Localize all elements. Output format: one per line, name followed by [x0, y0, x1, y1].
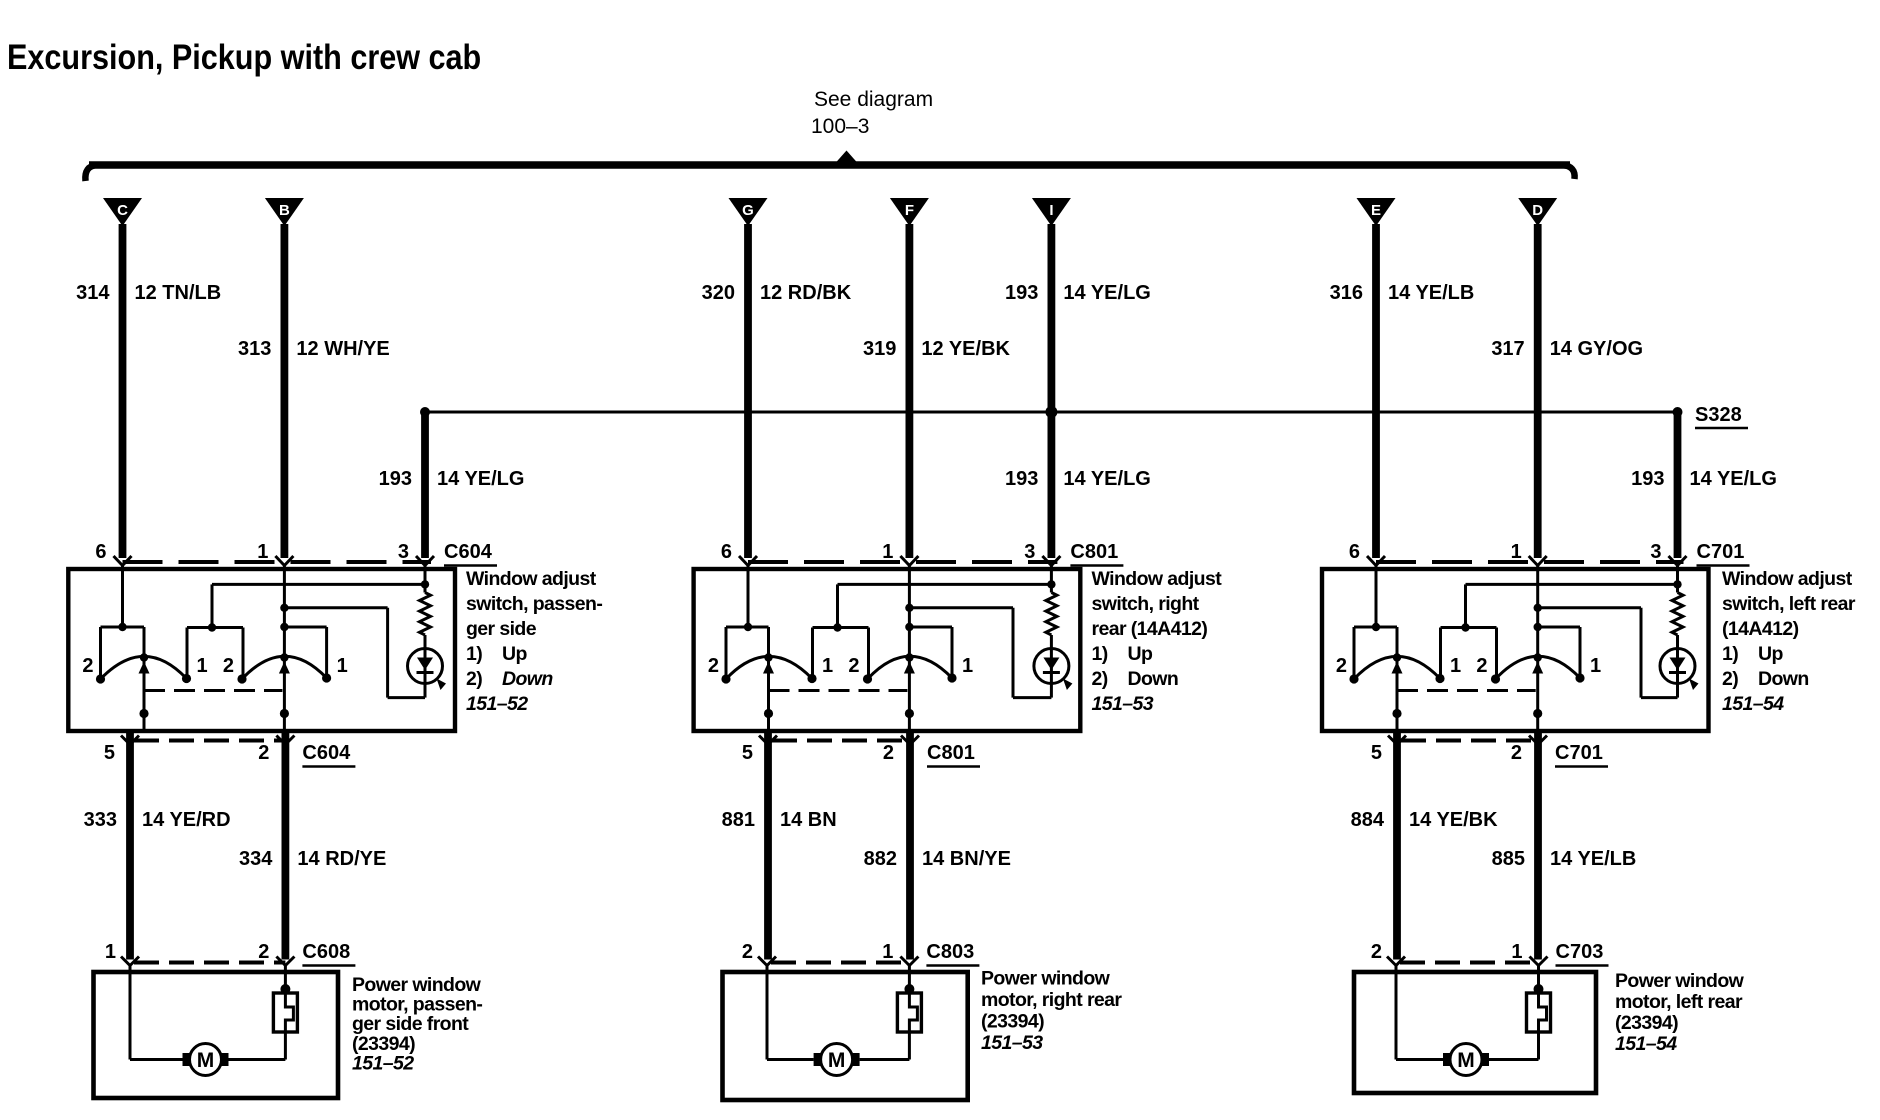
svg-text:1): 1) [1092, 643, 1108, 665]
node resistor feed junction [1673, 580, 1681, 588]
svg-text:C701: C701 [1555, 742, 1603, 764]
svg-text:12 TN/LB: 12 TN/LB [135, 282, 222, 304]
svg-text:6: 6 [721, 541, 732, 563]
power window motor box (right rear) [723, 972, 968, 1100]
wire motor to circuit breaker (right rear) [860, 1058, 910, 1061]
node resistor feed junction [421, 580, 429, 588]
node arc2 apex junction [1534, 653, 1542, 661]
svg-text:14 YE/BK: 14 YE/BK [1409, 809, 1498, 831]
svg-text:14 YE/LB: 14 YE/LB [1550, 848, 1636, 870]
connector C803 left pin symbol [758, 957, 767, 966]
svg-text:14 BN/YE: 14 BN/YE [922, 848, 1011, 870]
contact dot 2 (switch1 left rear) [1349, 674, 1358, 683]
svg-text:314: 314 [76, 282, 110, 304]
wire pin1 through switch to pin 2 (right rear) [908, 566, 911, 732]
switch2 feed bracket from pin1 (passenger side) [284, 626, 326, 629]
motor M (passenger side) [183, 1053, 191, 1066]
svg-text:Excursion, Pickup with crew ca: Excursion, Pickup with crew cab [7, 38, 481, 78]
wire pin6 feed inside switch (right rear) [747, 566, 750, 628]
wire pin1 through switch to pin 2 (passenger side) [283, 566, 286, 732]
LED arrow [1689, 679, 1699, 691]
connector triangle G [729, 198, 768, 226]
resistor, illumination (passenger side) [420, 593, 431, 636]
svg-text:rear (14A412): rear (14A412) [1092, 618, 1208, 640]
switch2 wiper arrow (left rear) [1532, 662, 1543, 674]
connector C801 pin 2 symbol [901, 736, 910, 745]
svg-text:14 YE/LG: 14 YE/LG [437, 468, 524, 490]
svg-text:151–52: 151–52 [466, 693, 528, 715]
svg-text:884: 884 [1351, 809, 1385, 831]
svg-text:151–52: 151–52 [352, 1052, 414, 1074]
LED arrow [1063, 679, 1073, 691]
switch2 feed bracket from pin1 (right rear) [909, 626, 952, 629]
wire circuit 319 from connector F [906, 224, 914, 558]
node splice dot on wire I [1045, 406, 1057, 418]
svg-text:S328: S328 [1695, 404, 1742, 426]
switch2 wiper arrow (right rear) [904, 662, 915, 674]
svg-text:881: 881 [722, 809, 755, 831]
switch1 wiper arc (left rear) [1354, 656, 1440, 679]
contact dot 1 (switch1 passenger side) [182, 674, 191, 683]
wire pin3 to resistor (passenger side) [424, 566, 427, 593]
svg-text:Power window: Power window [1615, 970, 1745, 992]
svg-text:motor, right rear: motor, right rear [981, 989, 1122, 1011]
node lamp-return junction on pin1 wire [280, 604, 288, 612]
window adjust switch box (passenger side) [68, 569, 455, 731]
svg-text:6: 6 [95, 541, 106, 563]
svg-text:317: 317 [1491, 338, 1524, 360]
svg-text:(14A412): (14A412) [1722, 618, 1799, 640]
wire pin6 feed inside switch (left rear) [1375, 566, 1378, 628]
contact dot 2 (switch2 left rear) [1491, 674, 1500, 683]
svg-text:M: M [197, 1049, 215, 1072]
node arc1 apex junction [764, 653, 772, 661]
contact dot 2 (switch2 passenger side) [237, 674, 246, 683]
svg-text:5: 5 [742, 742, 753, 764]
switch1 wiper arrow (left rear) [1392, 662, 1403, 674]
connector triangle E [1357, 198, 1396, 226]
switch1 feed bracket (left rear) [1354, 626, 1397, 629]
connector C701 pin 6 symbol [1367, 556, 1376, 566]
node bracket1 junction [1372, 623, 1380, 631]
wire pin3 to resistor (right rear) [1050, 566, 1053, 593]
wire left pin into motor (passenger side) [129, 966, 132, 1060]
svg-text:14 GY/OG: 14 GY/OG [1550, 338, 1643, 360]
svg-text:1: 1 [882, 941, 893, 963]
svg-text:C801: C801 [1070, 541, 1118, 563]
wire motor to circuit breaker (passenger side) [229, 1058, 286, 1061]
svg-text:151–54: 151–54 [1615, 1033, 1677, 1055]
svg-text:320: 320 [702, 282, 735, 304]
contact dot 1 (switch1 left rear) [1435, 674, 1444, 683]
node bracket3 junction on pin1 wire [905, 623, 913, 631]
resistor, illumination (left rear) [1672, 593, 1683, 636]
circuit breaker (left rear) [1537, 966, 1540, 991]
circuit breaker (right rear) [908, 966, 911, 991]
node bracket2 junction [1461, 623, 1469, 631]
connector C608 right pin symbol [276, 957, 285, 966]
svg-text:C608: C608 [302, 941, 350, 963]
svg-text:2: 2 [258, 742, 269, 764]
wire circuit 334 pin2 to motor (passenger side) [281, 732, 289, 960]
window adjust switch box (right rear) [694, 569, 1081, 731]
switch gang dashed link (passenger side) [144, 689, 282, 692]
svg-text:C: C [117, 202, 128, 219]
node arc2 apex junction [280, 653, 288, 661]
node bracket3 junction on pin1 wire [280, 623, 288, 631]
switch1 feed bracket (passenger side) [101, 626, 145, 629]
switch2 wiper arrow (passenger side) [279, 662, 290, 674]
connector C604 pin 2 symbol [276, 736, 285, 745]
svg-text:193: 193 [1005, 282, 1038, 304]
switch1 feed bracket (right rear) [726, 626, 769, 629]
svg-text:151–53: 151–53 [981, 1032, 1043, 1054]
svg-text:2: 2 [82, 655, 93, 677]
svg-text:1: 1 [197, 655, 208, 677]
svg-text:313: 313 [238, 338, 271, 360]
wire pin3 to resistor (left rear) [1676, 566, 1679, 593]
svg-text:1: 1 [882, 541, 893, 563]
svg-text:Down: Down [502, 668, 553, 690]
svg-text:(23394): (23394) [1615, 1012, 1678, 1034]
connector C801 pin 1 symbol [900, 556, 909, 566]
svg-text:switch, left rear: switch, left rear [1722, 593, 1856, 615]
svg-text:2: 2 [1476, 655, 1487, 677]
wire circuit 882 pin2 to motor (right rear) [906, 732, 914, 960]
switch1 wiper arrow (right rear) [763, 662, 774, 674]
svg-text:D: D [1532, 202, 1543, 219]
motor M (left rear) [1443, 1053, 1451, 1066]
svg-text:14 YE/RD: 14 YE/RD [142, 809, 231, 831]
node wiper1 junction dot [764, 709, 773, 718]
connector C701 dashed line (bottom) [1401, 739, 1538, 743]
connector C608 dashed line [134, 961, 285, 965]
svg-text:2: 2 [708, 655, 719, 677]
node splice dot S328 [1673, 407, 1683, 417]
switch2 wiper arc (left rear) [1496, 656, 1581, 679]
svg-text:C604: C604 [302, 742, 351, 764]
contact dot 1 (switch2 passenger side) [322, 673, 331, 682]
switch2 cross-feed bracket (left rear) [1441, 626, 1497, 629]
connector C703 left pin symbol [1387, 957, 1396, 966]
svg-text:2): 2) [1722, 668, 1738, 690]
svg-text:193: 193 [379, 468, 412, 490]
svg-text:2: 2 [742, 941, 753, 963]
wire circuit 193 stub (passenger side) [421, 412, 429, 558]
switch2 wiper arc (right rear) [868, 656, 953, 679]
wire circuit 193 from connector I [1048, 224, 1056, 558]
connector C801 pin 3 symbol [1042, 556, 1051, 566]
motor M (right rear) [814, 1053, 822, 1066]
connector C604 pin 6 symbol [114, 556, 123, 566]
svg-text:Power window: Power window [981, 968, 1111, 990]
wire switch1 wiper pole to pin 5 (passenger side) [143, 658, 146, 732]
connector C701 pin 3 symbol [1669, 556, 1678, 566]
svg-text:B: B [279, 202, 290, 219]
contact dot 2 (switch1 passenger side) [96, 674, 105, 683]
svg-text:Up: Up [502, 643, 527, 665]
node resistor feed junction [1047, 580, 1055, 588]
svg-text:1: 1 [1511, 541, 1522, 563]
svg-text:C604: C604 [444, 541, 493, 563]
connector C604 dashed line (bottom) [134, 739, 285, 743]
contact dot 2 (switch2 right rear) [863, 674, 872, 683]
svg-text:2: 2 [883, 742, 894, 764]
underline S328 [1695, 427, 1748, 430]
LED lamp, switch illumination (left rear) [1660, 649, 1695, 684]
wire bracket2 feed from lamp node (right rear) [836, 584, 839, 627]
wire motor to circuit breaker (left rear) [1489, 1058, 1539, 1061]
switch2 cross-feed bracket (passenger side) [187, 626, 243, 629]
LED lamp, switch illumination (passenger side) [408, 649, 443, 684]
svg-text:2): 2) [466, 668, 482, 690]
svg-text:316: 316 [1330, 282, 1363, 304]
connector C701 pin 2 symbol [1529, 736, 1538, 745]
connector triangle B [265, 198, 304, 226]
svg-text:1: 1 [337, 655, 348, 677]
contact dot 2 (switch1 right rear) [721, 674, 730, 683]
wire circuit 885 pin2 to motor (left rear) [1534, 732, 1542, 960]
wire circuit 316 from connector E [1372, 224, 1380, 558]
connector C701 dashed line (top) [1376, 560, 1684, 564]
node lamp-return junction on pin1 wire [905, 604, 913, 612]
node wiper2 junction dot [280, 709, 289, 718]
node arc2 apex junction [905, 653, 913, 661]
window adjust switch box (left rear) [1322, 569, 1709, 731]
wire left pin into motor (left rear) [1395, 966, 1398, 1060]
node wiper1 junction dot [139, 709, 148, 718]
bus right end hook [1562, 165, 1575, 179]
wire circuit 314 from connector C [119, 224, 127, 558]
svg-text:G: G [742, 202, 754, 219]
svg-text:3: 3 [398, 541, 409, 563]
svg-text:3: 3 [1024, 541, 1035, 563]
connector C604 pin 5 symbol [121, 736, 130, 745]
svg-text:I: I [1049, 202, 1053, 219]
connector C604 dashed line (top) [123, 560, 432, 564]
switch1 wiper arc (passenger side) [101, 656, 187, 679]
wire left pin into motor (right rear) [766, 966, 769, 1060]
node arc1 apex junction [1393, 653, 1401, 661]
connector C801 dashed line (top) [748, 560, 1057, 564]
connector C803 right pin symbol [900, 957, 909, 966]
connector C604 pin 3 symbol [416, 556, 425, 566]
resistor, illumination (right rear) [1046, 593, 1057, 636]
svg-text:ger side: ger side [466, 618, 537, 640]
svg-text:F: F [905, 202, 914, 219]
contact dot 1 (switch1 right rear) [807, 674, 816, 683]
connector C701 pin 5 symbol [1388, 736, 1397, 745]
svg-text:Window adjust: Window adjust [466, 568, 597, 590]
svg-text:1: 1 [1450, 655, 1461, 677]
node bracket1 junction [118, 623, 126, 631]
wire circuit 884 pin5 to motor (left rear) [1393, 732, 1401, 960]
svg-text:2: 2 [1336, 655, 1347, 677]
connector C703 right pin symbol [1530, 957, 1539, 966]
svg-text:100–3: 100–3 [811, 115, 869, 138]
wire pin1 through switch to pin 2 (left rear) [1536, 566, 1539, 732]
switch1 wiper arc (right rear) [726, 656, 812, 679]
wire lamp return loop (right rear) [1050, 684, 1053, 698]
svg-text:E: E [1371, 202, 1381, 219]
contact dot 1 (switch2 right rear) [947, 673, 956, 682]
svg-text:Window adjust: Window adjust [1092, 568, 1223, 590]
svg-text:5: 5 [104, 742, 115, 764]
svg-text:882: 882 [864, 848, 897, 870]
connector C801 pin 5 symbol [759, 736, 768, 745]
bus caret pointer to note [835, 151, 858, 164]
wire circuit 193 stub (left rear) [1674, 412, 1682, 558]
node splice dot section1 [420, 407, 430, 417]
switch gang dashed link (left rear) [1397, 689, 1536, 692]
svg-text:switch, passen-: switch, passen- [466, 593, 602, 615]
svg-text:C701: C701 [1697, 541, 1745, 563]
svg-text:5: 5 [1371, 742, 1382, 764]
wire circuit 313 from connector B [280, 224, 288, 558]
svg-text:See diagram: See diagram [814, 88, 933, 111]
wire circuit 881 pin5 to motor (right rear) [764, 732, 772, 960]
connector triangle D [1518, 198, 1557, 226]
svg-text:M: M [1457, 1049, 1475, 1072]
svg-text:14 YE/LG: 14 YE/LG [1690, 468, 1777, 490]
node wiper2 junction dot [905, 709, 914, 718]
node arc1 apex junction [140, 653, 148, 661]
wire splice line S328 [425, 411, 1678, 414]
svg-text:C803: C803 [926, 941, 974, 963]
switch2 wiper arc (passenger side) [242, 656, 327, 679]
connector C604 pin 1 symbol [275, 556, 284, 566]
power window motor box (left rear) [1354, 972, 1596, 1093]
wire switch1 wiper pole to pin 5 (right rear) [767, 658, 770, 732]
svg-text:333: 333 [84, 809, 117, 831]
svg-text:1): 1) [1722, 643, 1738, 665]
wire resistor to lamp [1676, 635, 1679, 649]
node bracket2 junction [833, 623, 841, 631]
wire lamp return loop (left rear) [1676, 684, 1679, 698]
svg-text:Up: Up [1128, 643, 1153, 665]
connector triangle I [1032, 198, 1071, 226]
svg-text:1: 1 [822, 655, 833, 677]
svg-text:Up: Up [1758, 643, 1783, 665]
contact dot 1 (switch2 left rear) [1575, 673, 1584, 682]
svg-text:1: 1 [257, 541, 268, 563]
wire bracket2 feed from lamp node (passenger side) [211, 584, 214, 627]
power window motor box (passenger side) [94, 972, 339, 1098]
svg-text:14 BN: 14 BN [780, 809, 837, 831]
LED lamp, switch illumination (right rear) [1034, 649, 1069, 684]
node bracket2 junction [208, 623, 216, 631]
connector C801 pin 6 symbol [739, 556, 748, 566]
svg-text:193: 193 [1005, 468, 1038, 490]
svg-text:1: 1 [1511, 941, 1522, 963]
LED arrow [437, 679, 447, 691]
svg-text:319: 319 [863, 338, 896, 360]
wire resistor to lamp [1050, 635, 1053, 649]
connector triangle F [890, 198, 929, 226]
svg-text:193: 193 [1631, 468, 1664, 490]
svg-text:14 YE/LG: 14 YE/LG [1063, 282, 1150, 304]
connector C701 pin 1 symbol [1529, 556, 1538, 566]
svg-text:motor, left rear: motor, left rear [1615, 991, 1743, 1013]
svg-text:Down: Down [1758, 668, 1809, 690]
connector C801 dashed line (bottom) [772, 739, 910, 743]
svg-text:151–54: 151–54 [1722, 693, 1784, 715]
svg-text:1: 1 [105, 941, 116, 963]
svg-text:885: 885 [1492, 848, 1525, 870]
svg-text:Window adjust: Window adjust [1722, 568, 1853, 590]
svg-text:6: 6 [1349, 541, 1360, 563]
connector C803 dashed line [771, 961, 909, 965]
svg-text:12 WH/YE: 12 WH/YE [296, 338, 389, 360]
switch gang dashed link (right rear) [769, 689, 908, 692]
svg-text:C801: C801 [927, 742, 975, 764]
wire switch1 wiper pole to pin 5 (left rear) [1396, 658, 1399, 732]
svg-text:12 YE/BK: 12 YE/BK [921, 338, 1010, 360]
bus left end hook [85, 165, 97, 181]
wire bracket2 feed from lamp node (left rear) [1464, 584, 1467, 627]
svg-text:1): 1) [466, 643, 482, 665]
svg-text:2: 2 [848, 655, 859, 677]
svg-text:14 YE/LB: 14 YE/LB [1388, 282, 1474, 304]
svg-text:C703: C703 [1556, 941, 1604, 963]
switch1 wiper arrow (passenger side) [139, 662, 150, 674]
node wiper2 junction dot [1533, 709, 1542, 718]
svg-text:2: 2 [1511, 742, 1522, 764]
svg-text:2: 2 [258, 941, 269, 963]
circuit breaker (passenger side) [284, 966, 287, 991]
node bracket3 junction on pin1 wire [1534, 623, 1542, 631]
svg-text:2): 2) [1092, 668, 1108, 690]
wire circuit 333 pin5 to motor (passenger side) [126, 732, 134, 960]
svg-text:151–53: 151–53 [1092, 693, 1154, 715]
wire resistor to lamp [424, 635, 427, 649]
svg-text:(23394): (23394) [981, 1011, 1044, 1033]
node lamp-return junction on pin1 wire [1534, 604, 1542, 612]
connector C703 dashed line [1400, 961, 1539, 965]
bus wire from diagram 100-3 [89, 161, 1570, 169]
svg-text:2: 2 [1371, 941, 1382, 963]
node wiper1 junction dot [1392, 709, 1401, 718]
svg-text:2: 2 [223, 655, 234, 677]
node bracket1 junction [744, 623, 752, 631]
switch2 feed bracket from pin1 (left rear) [1538, 626, 1580, 629]
svg-text:12 RD/BK: 12 RD/BK [760, 282, 852, 304]
switch2 cross-feed bracket (right rear) [813, 626, 869, 629]
svg-text:1: 1 [1590, 655, 1601, 677]
svg-text:M: M [828, 1049, 846, 1072]
svg-text:14 RD/YE: 14 RD/YE [297, 848, 386, 870]
svg-text:3: 3 [1650, 541, 1661, 563]
svg-text:switch, right: switch, right [1092, 593, 1200, 615]
connector C608 left pin symbol [121, 957, 130, 966]
wire pin6 feed inside switch (passenger side) [121, 566, 124, 628]
wire circuit 317 from connector D [1534, 224, 1542, 558]
wire circuit 320 from connector G [744, 224, 752, 558]
svg-text:334: 334 [239, 848, 273, 870]
svg-text:Down: Down [1128, 668, 1179, 690]
connector triangle C [103, 198, 142, 226]
wire lamp return loop (passenger side) [424, 684, 427, 698]
svg-text:1: 1 [962, 655, 973, 677]
svg-text:14 YE/LG: 14 YE/LG [1063, 468, 1150, 490]
